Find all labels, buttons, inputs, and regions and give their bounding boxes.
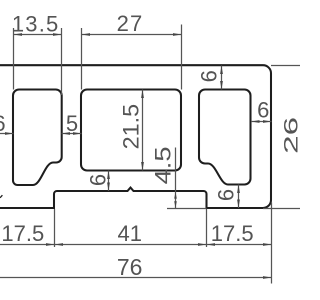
dim 13.5	[14, 28, 62, 95]
svg-text:27: 27	[117, 11, 144, 36]
6 mid	[107, 171, 110, 180]
dim 6 left (cropped)	[0, 133, 14, 135]
row2	[263, 276, 272, 279]
dim 6 right horizontal	[251, 121, 272, 123]
dim 6 top-right vertical	[221, 66, 223, 90]
4.5	[174, 192, 177, 199]
dim row1	[0, 244, 272, 246]
svg-text:21.5: 21.5	[119, 104, 144, 150]
svg-text:13.5: 13.5	[12, 11, 60, 36]
5	[62, 132, 71, 135]
dim 26 extensions	[263, 66, 300, 209]
svg-text:6: 6	[197, 70, 222, 82]
left pocket	[13, 90, 62, 186]
bottom row1 extensions	[55, 203, 272, 284]
dim 21.5	[142, 90, 144, 171]
svg-text:6: 6	[86, 174, 111, 186]
svg-text:6: 6	[257, 98, 269, 123]
21.5	[141, 90, 144, 99]
svg-text:4.5: 4.5	[151, 146, 176, 184]
dim 6 mid vertical	[108, 171, 110, 192]
middle pocket	[81, 90, 181, 171]
dim 5	[62, 133, 82, 135]
6 right horiz	[251, 120, 260, 123]
svg-text:76: 76	[117, 254, 143, 280]
dim 27	[82, 25, 182, 90]
27	[82, 33, 91, 36]
svg-text:5: 5	[66, 111, 78, 136]
svg-text:41: 41	[117, 221, 141, 246]
row1	[46, 243, 55, 246]
svg-text:6: 6	[0, 111, 6, 136]
svg-text:6: 6	[214, 189, 239, 201]
6 top-right	[220, 66, 223, 75]
svg-text:26: 26	[281, 117, 301, 154]
6 right-mid	[237, 185, 240, 194]
break tick at left edge	[0, 195, 2, 198]
svg-text:17.5: 17.5	[211, 221, 254, 246]
6 left	[5, 132, 14, 135]
svg-text:17.5: 17.5	[1, 221, 44, 246]
profile outline	[0, 65, 271, 208]
13.5	[14, 33, 23, 36]
dim 6 right-mid vertical	[238, 185, 240, 209]
dim 4.5	[167, 148, 207, 209]
dim row2 76	[0, 277, 272, 279]
right pocket	[199, 90, 251, 185]
